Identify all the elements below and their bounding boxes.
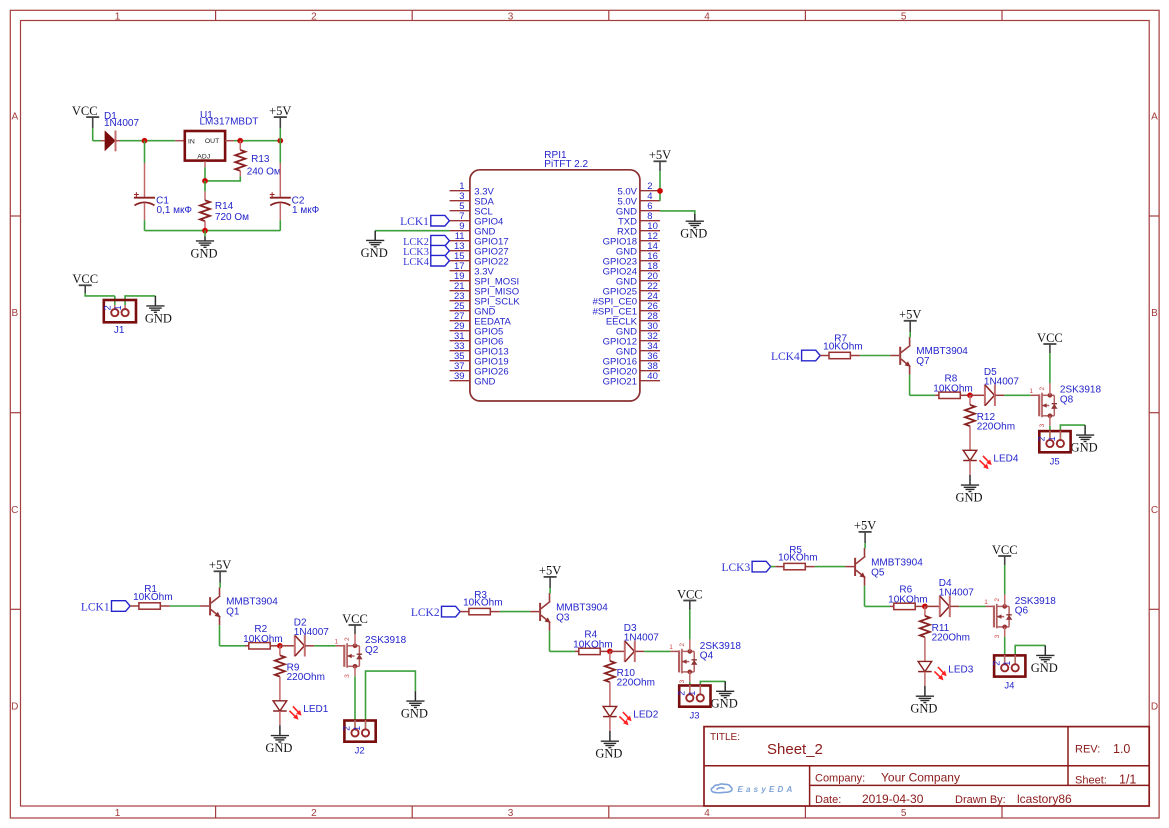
svg-text:10KOhm: 10KOhm xyxy=(133,592,172,603)
svg-text:+: + xyxy=(269,189,275,200)
svg-text:2: 2 xyxy=(1039,387,1046,391)
svg-text:Q6: Q6 xyxy=(1015,605,1029,616)
svg-text:+5V: +5V xyxy=(209,558,231,572)
svg-text:GND: GND xyxy=(1031,661,1058,675)
svg-text:LCK4: LCK4 xyxy=(403,257,429,268)
svg-text:GPIO21: GPIO21 xyxy=(603,376,637,387)
svg-text:+5V: +5V xyxy=(899,308,921,322)
svg-text:1: 1 xyxy=(115,808,121,819)
svg-text:ADJ: ADJ xyxy=(197,154,210,161)
svg-text:LM317MBDT: LM317MBDT xyxy=(200,117,259,128)
svg-text:Q7: Q7 xyxy=(916,356,930,367)
svg-text:+5V: +5V xyxy=(649,148,671,162)
svg-text:GND: GND xyxy=(955,491,982,505)
svg-text:220Ohm: 220Ohm xyxy=(977,421,1015,432)
svg-text:3: 3 xyxy=(508,808,514,819)
svg-text:10KOhm: 10KOhm xyxy=(243,634,282,645)
svg-text:10KOhm: 10KOhm xyxy=(933,384,972,395)
svg-text:GND: GND xyxy=(474,376,495,387)
svg-text:GND: GND xyxy=(1071,441,1098,455)
svg-text:REV:: REV: xyxy=(1075,744,1100,756)
svg-text:0,1 мкФ: 0,1 мкФ xyxy=(157,205,193,216)
svg-text:VCC: VCC xyxy=(677,587,703,601)
svg-text:VCC: VCC xyxy=(992,543,1018,557)
svg-text:1N4007: 1N4007 xyxy=(294,627,329,638)
svg-text:1: 1 xyxy=(1002,661,1012,666)
svg-text:1: 1 xyxy=(984,599,988,606)
svg-text:2: 2 xyxy=(679,643,686,647)
svg-text:PiTFT 2.2: PiTFT 2.2 xyxy=(544,159,588,170)
svg-text:39: 39 xyxy=(454,371,465,382)
svg-text:LED1: LED1 xyxy=(303,704,328,715)
svg-text:GND: GND xyxy=(145,311,172,325)
svg-text:2: 2 xyxy=(311,808,317,819)
svg-text:Q1: Q1 xyxy=(226,607,240,618)
svg-text:2: 2 xyxy=(102,305,112,310)
svg-text:3: 3 xyxy=(344,674,351,678)
svg-text:2: 2 xyxy=(342,726,352,731)
svg-text:2: 2 xyxy=(344,637,351,641)
svg-text:VCC: VCC xyxy=(72,272,98,286)
svg-text:C: C xyxy=(1151,505,1158,516)
svg-text:1N4007: 1N4007 xyxy=(984,376,1019,387)
svg-text:B: B xyxy=(11,308,18,319)
svg-text:40: 40 xyxy=(647,371,658,382)
svg-text:2: 2 xyxy=(676,691,686,696)
svg-text:3: 3 xyxy=(1039,423,1046,427)
svg-text:VCC: VCC xyxy=(342,612,368,626)
svg-text:Q2: Q2 xyxy=(365,645,379,656)
svg-text:10KOhm: 10KOhm xyxy=(573,640,612,651)
svg-text:1: 1 xyxy=(1047,436,1057,441)
svg-text:1N4007: 1N4007 xyxy=(104,118,139,129)
svg-text:GND: GND xyxy=(711,697,738,711)
svg-text:Sheet:: Sheet: xyxy=(1075,775,1107,787)
svg-text:A: A xyxy=(1151,112,1158,123)
svg-text:C: C xyxy=(11,505,18,516)
svg-text:Q4: Q4 xyxy=(700,650,714,661)
svg-text:LCK4: LCK4 xyxy=(771,351,800,363)
svg-text:VCC: VCC xyxy=(1037,331,1063,345)
svg-text:3: 3 xyxy=(679,679,686,683)
svg-text:10KOhm: 10KOhm xyxy=(463,598,502,609)
svg-text:220Ohm: 220Ohm xyxy=(617,677,655,688)
svg-text:2: 2 xyxy=(994,598,1001,602)
svg-text:lcastory86: lcastory86 xyxy=(1017,792,1072,806)
svg-text:Date:: Date: xyxy=(815,794,841,806)
svg-text:1: 1 xyxy=(115,12,121,23)
svg-text:IN: IN xyxy=(188,138,195,145)
svg-text:220Ohm: 220Ohm xyxy=(287,672,325,683)
svg-text:LCK1: LCK1 xyxy=(81,601,110,613)
svg-text:LED2: LED2 xyxy=(633,709,658,720)
svg-text:1.0: 1.0 xyxy=(1113,742,1130,756)
svg-text:LCK1: LCK1 xyxy=(400,216,429,228)
svg-text:1 мкФ: 1 мкФ xyxy=(292,205,320,216)
svg-text:1N4007: 1N4007 xyxy=(624,632,659,643)
svg-text:1: 1 xyxy=(113,305,123,310)
svg-text:+5V: +5V xyxy=(854,519,876,533)
svg-text:2: 2 xyxy=(311,12,317,23)
svg-text:Q8: Q8 xyxy=(1060,394,1074,405)
svg-text:2: 2 xyxy=(991,661,1001,666)
svg-text:LCK2: LCK2 xyxy=(411,607,440,619)
svg-text:1: 1 xyxy=(352,726,362,731)
svg-text:10KOhm: 10KOhm xyxy=(823,341,862,352)
svg-text:10KOhm: 10KOhm xyxy=(888,595,927,606)
svg-text:Your Company: Your Company xyxy=(881,771,960,785)
svg-text:B: B xyxy=(1151,308,1158,319)
svg-text:LED4: LED4 xyxy=(993,453,1018,464)
svg-text:J1: J1 xyxy=(114,325,125,336)
svg-text:+: + xyxy=(134,189,140,200)
svg-text:J2: J2 xyxy=(355,746,365,757)
svg-text:EasyEDA: EasyEDA xyxy=(738,785,796,794)
svg-text:GND: GND xyxy=(910,702,937,716)
svg-text:VCC: VCC xyxy=(72,104,98,118)
svg-text:J4: J4 xyxy=(1004,681,1014,692)
svg-text:4: 4 xyxy=(704,12,710,23)
svg-text:LED3: LED3 xyxy=(948,664,973,675)
svg-text:3: 3 xyxy=(994,634,1001,638)
svg-text:2019-04-30: 2019-04-30 xyxy=(862,792,924,806)
svg-text:GND: GND xyxy=(680,227,707,241)
svg-text:2: 2 xyxy=(1037,436,1047,441)
svg-text:5: 5 xyxy=(901,808,907,819)
svg-text:240 Ом: 240 Ом xyxy=(247,166,281,177)
svg-text:220Ohm: 220Ohm xyxy=(932,632,970,643)
svg-text:TITLE:: TITLE: xyxy=(710,732,740,743)
svg-text:Sheet_2: Sheet_2 xyxy=(767,741,823,758)
svg-text:+5V: +5V xyxy=(539,564,561,578)
svg-text:1: 1 xyxy=(1029,388,1033,395)
svg-text:OUT: OUT xyxy=(205,138,219,145)
svg-text:+5V: +5V xyxy=(269,104,291,118)
svg-text:GND: GND xyxy=(265,741,292,755)
svg-text:1N4007: 1N4007 xyxy=(939,587,974,598)
svg-text:Q3: Q3 xyxy=(556,612,570,623)
svg-text:GND: GND xyxy=(401,707,428,721)
svg-text:R14: R14 xyxy=(215,201,234,212)
svg-text:GND: GND xyxy=(190,246,217,260)
svg-text:1: 1 xyxy=(687,691,697,696)
svg-text:R13: R13 xyxy=(251,154,270,165)
svg-text:Q5: Q5 xyxy=(871,567,885,578)
svg-text:1/1: 1/1 xyxy=(1119,773,1136,787)
svg-text:4: 4 xyxy=(704,808,710,819)
svg-text:Drawn By:: Drawn By: xyxy=(955,794,1006,806)
svg-text:J3: J3 xyxy=(689,711,699,722)
svg-text:5: 5 xyxy=(901,12,907,23)
svg-text:720 Ом: 720 Ом xyxy=(215,212,249,223)
svg-text:1: 1 xyxy=(335,639,339,646)
svg-text:J5: J5 xyxy=(1050,456,1060,467)
svg-text:D: D xyxy=(1151,701,1158,712)
svg-text:1: 1 xyxy=(669,644,673,651)
svg-text:D: D xyxy=(11,701,18,712)
svg-text:A: A xyxy=(11,112,18,123)
svg-text:LCK3: LCK3 xyxy=(721,562,750,574)
svg-text:10KOhm: 10KOhm xyxy=(778,553,817,564)
svg-text:3: 3 xyxy=(508,12,514,23)
svg-text:GND: GND xyxy=(361,246,388,260)
svg-text:Company:: Company: xyxy=(815,773,865,785)
svg-text:GND: GND xyxy=(595,747,622,761)
